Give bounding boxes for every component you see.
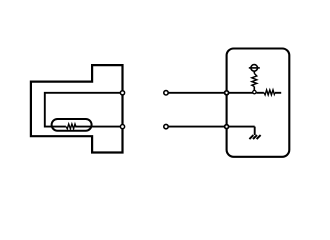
node (top wire entering box) <box>225 91 229 95</box>
supply terminal (circle with bar) <box>251 65 258 72</box>
terminal (connector pin, top) <box>120 91 124 95</box>
terminal (connector pin, bottom) <box>120 125 124 129</box>
node (bottom wire entering box) <box>225 125 229 129</box>
wire (supply terminal to resistor R1) <box>253 71 255 73</box>
terminal (harness side, top) <box>164 91 168 95</box>
wire (bottom ground wire into control unit) <box>169 126 255 128</box>
wire (resistor R1 to junction) <box>253 87 255 93</box>
resistor R1 (vertical pull-up, zigzag) <box>252 73 257 86</box>
wire (bottom wire drop to chassis ground) <box>254 127 256 135</box>
wire (junction to resistor R2) <box>256 92 264 94</box>
terminal (harness side, bottom) <box>164 124 168 128</box>
wire (stub from R2 to internal circuit) <box>275 92 281 94</box>
connector housing outline (lamp socket) <box>31 65 123 152</box>
ground (chassis ground, three hatches) <box>249 135 260 139</box>
lamp L1 (filament lamp: stadium outline) <box>52 119 92 131</box>
resistor R2 (horizontal, zigzag) <box>264 90 275 95</box>
node (junction of R1, top wire, R2) <box>253 90 256 93</box>
lamp L1 filament (zigzag) <box>66 124 76 129</box>
wire (lamp right lead to terminal) <box>75 126 122 128</box>
wire (inner loop: top wire, left vertical, bottom lead to lamp) <box>45 93 123 127</box>
wire (top signal wire into control unit) <box>169 92 255 94</box>
control unit box <box>227 49 290 157</box>
